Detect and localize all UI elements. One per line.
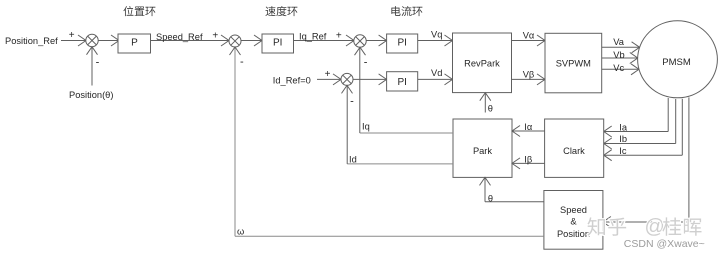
caption current-loop 电流环 (391, 6, 400, 16)
block PI U2 (speed controller) (262, 34, 294, 53)
wire P to J2, node Speed_Ref (151, 40, 229, 42)
wire PMSM sensor down (688, 97, 690, 222)
svg-text:Position(θ): Position(θ) (69, 90, 113, 100)
block SVPWM (545, 33, 602, 93)
watermark zhihu 知乎 @桂晖 (587, 217, 605, 235)
svg-text:PMSM: PMSM (662, 57, 691, 68)
svg-text:Vb: Vb (613, 50, 624, 60)
svg-text:Ic: Ic (619, 146, 627, 156)
caption position-loop 位置环 (123, 6, 133, 16)
svg-text:P: P (131, 38, 138, 49)
svg-text:Iq: Iq (362, 121, 370, 131)
svg-text:ω: ω (237, 227, 244, 237)
svg-text:θ: θ (488, 193, 493, 203)
wire J3 to PI q (366, 40, 386, 42)
svg-text:Iq_Ref: Iq_Ref (299, 32, 327, 42)
svg-text:PI: PI (273, 38, 282, 49)
wire Clark to Park, node Ialpha (512, 130, 545, 132)
block Clark (Clarke transform) (545, 119, 604, 177)
svg-text:+: + (336, 30, 342, 41)
svg-text:Va: Va (613, 37, 625, 47)
svg-text:Vc: Vc (613, 63, 624, 73)
svg-text:Park: Park (473, 146, 492, 156)
summing junction J4 (d current) (341, 73, 353, 85)
svg-text:@: @ (645, 216, 665, 238)
wire Id feedback from Park to J4 (347, 163, 453, 165)
wire Ic into Clark (604, 154, 683, 156)
svg-text:-: - (350, 96, 354, 108)
wire Position_Ref into J1 (61, 40, 86, 42)
wire PMSM phase c down (681, 99, 683, 155)
svg-text:Vd: Vd (431, 68, 442, 78)
svg-text:Iα: Iα (524, 122, 533, 132)
svg-text:Position_Ref: Position_Ref (5, 36, 58, 46)
wire theta into RevPark (484, 93, 486, 113)
block PI U4 (d current controller) (387, 72, 418, 91)
wire PI to J3, node Iq_Ref (294, 40, 355, 42)
svg-text:Iβ: Iβ (524, 154, 532, 164)
svg-text:+: + (69, 30, 75, 41)
caption speed-loop 速度环 (265, 6, 275, 16)
wire Position(theta) feedback into J1 (91, 47, 93, 86)
svg-text:Position: Position (557, 229, 590, 239)
svg-text:Id: Id (349, 155, 357, 165)
wire PIq to RevPark, node Vq (418, 40, 453, 42)
svg-text:Clark: Clark (563, 146, 585, 156)
svg-text:-: - (364, 57, 368, 69)
svg-text:Ia: Ia (619, 122, 628, 132)
summing junction J1 (position) (86, 34, 98, 46)
svg-text:Vα: Vα (523, 31, 535, 41)
wire omega feedback from Speed&Position to J2 (235, 235, 544, 237)
wire theta from Speed&Position to Park (485, 201, 544, 203)
wire PMSM phase b down (675, 99, 677, 144)
svg-text:CSDN @Xwave~: CSDN @Xwave~ (624, 238, 705, 250)
svg-text:Vq: Vq (431, 30, 442, 40)
wire SVPWM to PMSM, node Vc (602, 68, 639, 70)
svg-text:+: + (212, 30, 218, 41)
wire J4 to PI d (353, 78, 387, 80)
summing junction J3 (q current) (354, 35, 366, 47)
svg-text:SVPWM: SVPWM (556, 59, 591, 69)
wire J1 to P (98, 40, 119, 42)
wire Ib into Clark (604, 143, 676, 145)
svg-text:&: & (570, 216, 577, 226)
svg-text:+: + (325, 69, 331, 80)
svg-text:Speed_Ref: Speed_Ref (156, 32, 203, 42)
wire Iq feedback from Park to J3 (360, 132, 453, 134)
wire Clark to Park, node Ibeta (512, 162, 545, 164)
block RevPark (inverse Park transform) (453, 33, 512, 93)
wire Ia into Clark (604, 131, 669, 133)
block Speed & Position estimator (544, 191, 603, 250)
svg-text:Vβ: Vβ (523, 70, 535, 80)
wire PMSM phase a down (667, 98, 669, 132)
summing junction J2 (speed) (229, 35, 241, 47)
wire sensor into Speed&Position (603, 221, 689, 223)
svg-text:RevPark: RevPark (464, 58, 500, 68)
wire SVPWM to PMSM, node Vb (602, 57, 638, 59)
motor PMSM (638, 21, 718, 98)
svg-text:PI: PI (397, 77, 406, 88)
block P (position controller) (118, 34, 151, 53)
svg-text:PI: PI (397, 38, 406, 49)
svg-text:θ: θ (488, 103, 493, 113)
svg-text:Ib: Ib (619, 134, 627, 144)
block Park (Park transform) (453, 119, 512, 177)
svg-text:-: - (240, 56, 244, 68)
svg-text:-: - (96, 57, 100, 69)
wire J2 to PI speed (241, 40, 262, 42)
wire PId to RevPark, node Vd (418, 78, 453, 80)
wire RevPark to SVPWM, node Vbeta (512, 78, 546, 80)
wire Id_Ref into J4 (317, 78, 341, 80)
block PI U3 (q current controller) (387, 34, 418, 53)
svg-text:Id_Ref=0: Id_Ref=0 (273, 75, 311, 85)
wire RevPark to SVPWM, node Valpha (512, 40, 546, 42)
wire SVPWM to PMSM, node Va (602, 46, 640, 48)
svg-text:Speed: Speed (560, 205, 587, 215)
